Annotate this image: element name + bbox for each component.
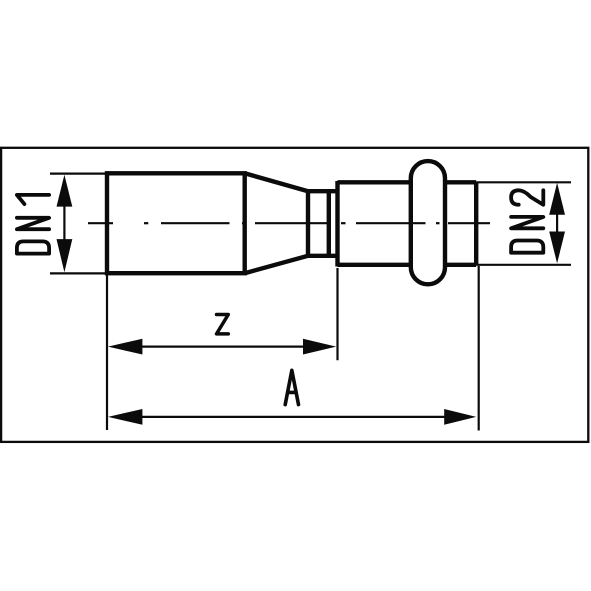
- press-section bottom line: [338, 263, 477, 267]
- A left arrow: [108, 409, 142, 425]
- 1: [17, 195, 49, 204]
- pipe end vertical: [474, 182, 478, 264]
- press-section bead left edge: [335, 181, 339, 267]
- A right vertical extension line: [478, 266, 480, 431]
- drawing frame border: [1, 148, 588, 442]
- DN2 up arrow: [549, 183, 565, 215]
- DN2 top extension line: [476, 181, 571, 183]
- 2: [511, 190, 543, 204]
- label Z: [217, 315, 229, 334]
- left vertical extension line: [106, 275, 108, 430]
- centerline (dash-dot axis): [88, 222, 490, 224]
- Z right vertical extension line: [336, 268, 338, 360]
- D: [17, 241, 49, 253]
- DN1 dimension line: [63, 206, 65, 240]
- DN2 dimension line: [556, 214, 558, 232]
- arrowheads (filled): [57, 175, 566, 425]
- press-section top line: [338, 180, 477, 184]
- pipe outline: big pipe body (left cylinder): [107, 161, 476, 284]
- DN1 bottom extension line: [50, 272, 107, 274]
- label A: [285, 370, 298, 404]
- o-ring bulge capsule: [411, 161, 445, 284]
- DN1 top extension line: [50, 173, 107, 175]
- N: [511, 217, 543, 228]
- neck top line: [308, 189, 338, 193]
- Z right arrow: [303, 339, 336, 355]
- tube stop vertical: [327, 191, 331, 256]
- label DN1 (rotated): [17, 195, 49, 254]
- A right arrow: [444, 409, 476, 425]
- DN1 up arrow: [57, 175, 73, 207]
- A dimension line: [142, 416, 445, 418]
- Z left arrow: [108, 339, 142, 355]
- DN2 bottom extension line: [476, 264, 571, 266]
- DN2 down arrow: [549, 232, 565, 264]
- N: [17, 218, 49, 229]
- Z dimension line: [142, 346, 304, 348]
- taper bottom line: [245, 256, 308, 273]
- thin lines: extension lines: [50, 174, 571, 431]
- DN1 down arrow: [57, 239, 73, 272]
- taper end vertical: [306, 191, 310, 256]
- label DN2 (rotated): [511, 190, 543, 252]
- neck bottom line: [308, 254, 338, 258]
- D: [511, 241, 543, 253]
- taper top line: [245, 173, 308, 191]
